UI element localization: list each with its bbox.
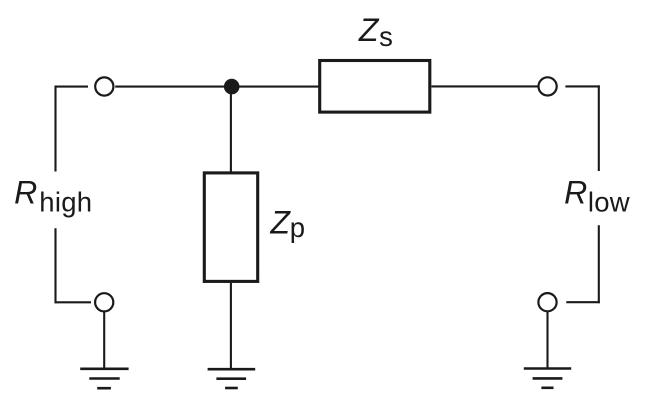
wire: left vertical upper segment (above R_high label) [54, 86, 56, 172]
impedance box Zp (shunt) [204, 173, 257, 282]
wire: right vertical lower segment (below R_low label) [598, 225, 600, 303]
wire: horizontal from top terminal through node to Zs box [115, 86, 318, 88]
svg-text:high: high [39, 186, 92, 217]
terminal circle: low-side output bottom [538, 293, 556, 311]
svg-text:R: R [564, 175, 587, 211]
wire: bottom-left horizontal from corner to lower terminal [55, 301, 92, 303]
terminal circle: high-side input top [95, 77, 113, 95]
wire: top-left horizontal from corner to left terminal [55, 86, 89, 88]
svg-text:R: R [14, 175, 37, 211]
wire: bottom-right horizontal from terminal gap to corner [566, 301, 600, 303]
svg-text:low: low [588, 186, 630, 217]
terminal circle: low-side output top [539, 77, 557, 95]
wire: left ground stem [103, 312, 105, 369]
wire: right vertical upper segment (above R_low label) [598, 85, 600, 171]
wire: right ground stem [546, 312, 548, 369]
wire: left vertical lower segment (below R_high label) [54, 228, 56, 303]
svg-text:s: s [379, 21, 393, 52]
ground: right earth symbol [524, 369, 571, 388]
svg-text:Z: Z [269, 205, 291, 241]
terminal circle: high-side input bottom [95, 293, 113, 311]
node: junction dot [224, 79, 240, 95]
wire: horizontal from Zs box to low-side terminal [432, 85, 539, 87]
ground: middle earth symbol [208, 369, 256, 388]
impedance box Zs (series) [320, 61, 430, 113]
wire: top-right horizontal from terminal gap to corner [565, 85, 599, 87]
svg-text:Z: Z [358, 12, 380, 48]
svg-text:p: p [290, 212, 305, 243]
ground: left earth symbol [80, 369, 128, 388]
wire: Zp ground stem [230, 283, 232, 369]
wire: vertical from junction down to Zp box [230, 87, 232, 172]
